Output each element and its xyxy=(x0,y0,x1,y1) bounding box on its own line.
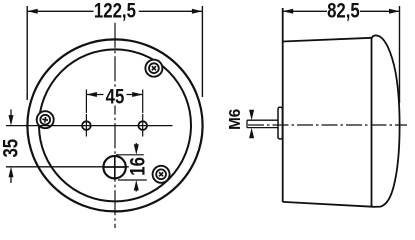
lens profile xyxy=(372,35,400,206)
outer circle of lamp body xyxy=(27,39,202,211)
cable hole centerlines xyxy=(103,155,127,180)
lens seam line xyxy=(371,38,373,207)
side view body bottom edge xyxy=(283,202,374,207)
label 45 xyxy=(104,87,126,106)
inner rim circle xyxy=(39,49,191,201)
label 35 xyxy=(0,138,23,157)
dimension 82,5 line xyxy=(283,9,400,14)
dimension 35 arrow top xyxy=(9,110,14,126)
dimension 16 extension lines xyxy=(116,155,147,180)
svg-text:122,5: 122,5 xyxy=(94,0,136,23)
screw boss top-right xyxy=(145,60,162,77)
side view horizontal centerline xyxy=(248,124,407,126)
dimension 82,5 extension line right xyxy=(399,6,401,103)
vertical centerline of lamp front view xyxy=(114,23,116,228)
M6 stud xyxy=(247,120,279,127)
svg-text:16: 16 xyxy=(127,157,150,176)
screw head left xyxy=(40,115,50,125)
centerline tick through flange xyxy=(277,124,284,126)
svg-text:82,5: 82,5 xyxy=(327,0,360,23)
screw boss bottom-right xyxy=(153,166,170,183)
horizontal line through bottom hole xyxy=(6,166,129,168)
mounting hole right xyxy=(138,114,147,137)
dimension M6 arrow bottom xyxy=(249,128,254,139)
stud flange washer xyxy=(278,107,282,139)
screw head bottom-right xyxy=(156,169,166,179)
dimension M6 arrow top xyxy=(249,110,254,121)
cable hole bottom xyxy=(103,156,125,178)
svg-text:35: 35 xyxy=(0,138,23,157)
dimension 122,5 line xyxy=(27,9,202,14)
screw head top-right xyxy=(149,63,159,73)
horizontal centerline through mounting holes xyxy=(6,125,173,127)
dimension 35 arrow bottom xyxy=(9,167,14,183)
label M6 xyxy=(226,108,243,129)
side view body left edge / extension line xyxy=(282,8,284,202)
dimension 122,5 extension line left xyxy=(26,6,28,100)
side view body top edge xyxy=(283,38,372,42)
dimension 122,5 extension line right xyxy=(201,6,203,97)
svg-text:M6: M6 xyxy=(226,108,243,129)
label 16 xyxy=(127,157,150,176)
svg-text:45: 45 xyxy=(106,86,125,109)
mounting hole left xyxy=(82,114,91,137)
screw boss left xyxy=(37,111,54,128)
dimension 16 arrow bottom xyxy=(134,180,139,192)
dimension 45 line xyxy=(86,92,142,97)
dimension 45 extension lines xyxy=(86,90,142,114)
dimension 16 arrow top xyxy=(134,143,139,155)
label 82,5 xyxy=(327,0,360,23)
label 122,5 xyxy=(94,0,136,23)
